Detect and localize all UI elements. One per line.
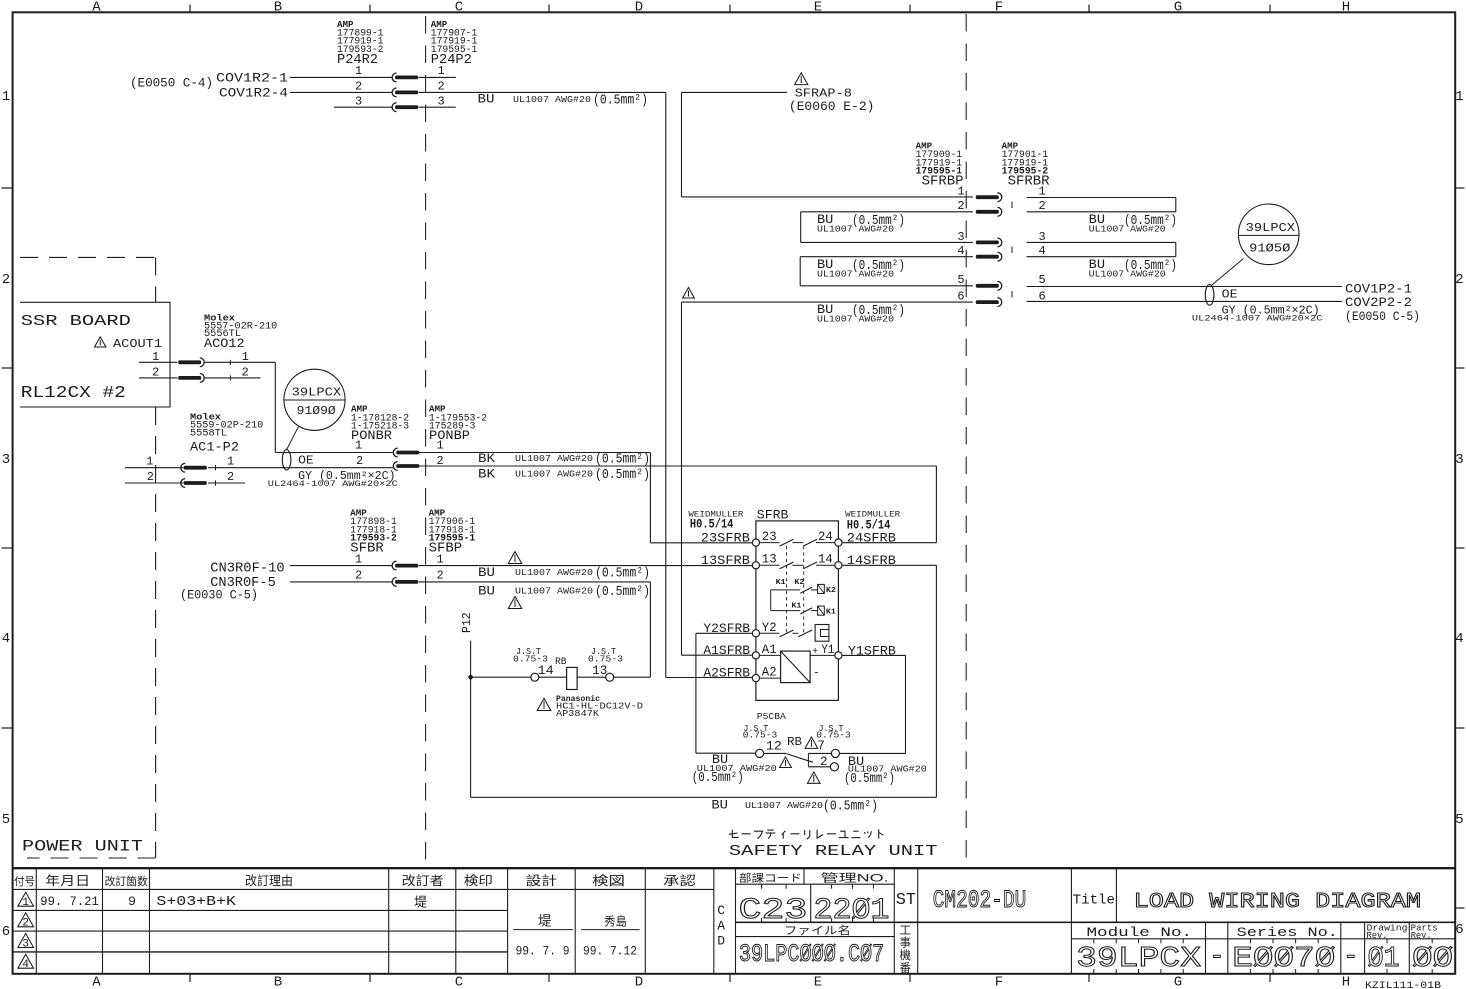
warning triangle SFRAP-8 — [795, 73, 808, 85]
relay mechanical linkage dashed lines — [786, 546, 788, 633]
svg-text:Module No.: Module No. — [1087, 925, 1193, 940]
svg-text:E: E — [814, 975, 822, 989]
connector AC1-P2 pin 1 contact — [181, 463, 185, 472]
svg-text:2: 2 — [957, 199, 964, 213]
row ticks right — [1455, 187, 1464, 189]
relay contact row Y2 (reset) — [760, 632, 780, 634]
svg-text:A2SFRB: A2SFRB — [703, 666, 750, 681]
svg-text:(0.5mm²): (0.5mm²) — [823, 798, 878, 814]
svg-text:1: 1 — [1039, 185, 1046, 199]
terminal circle 7 — [831, 749, 839, 757]
warning triangle ACOUT1 — [94, 337, 105, 347]
svg-text:2: 2 — [1455, 272, 1463, 288]
relay terminal A2 — [752, 675, 759, 682]
svg-text:(E0050 C-5): (E0050 C-5) — [1345, 309, 1420, 324]
svg-text:PONBP: PONBP — [429, 428, 470, 443]
svg-text:23: 23 — [762, 530, 777, 544]
relay supply rectifier square — [760, 654, 781, 656]
connector P24 pin 3 contact — [392, 103, 396, 112]
svg-text:COV2P2-2: COV2P2-2 — [1345, 295, 1412, 310]
warning triangle under blade — [780, 757, 792, 768]
svg-text:1: 1 — [438, 64, 445, 78]
svg-text:D: D — [635, 975, 643, 989]
connector PONB pin 1 contact — [393, 448, 397, 457]
wire SFBR pin1 left — [290, 565, 392, 567]
connector AC1-P2 pin 1 wire left — [125, 467, 184, 469]
jumper SFRBP pin2-pin3 loop — [801, 211, 973, 213]
connector SFRB contacts pins 1-6 — [997, 193, 1001, 202]
svg-text:5: 5 — [1039, 273, 1046, 287]
svg-text:堤: 堤 — [414, 895, 427, 910]
svg-text:RB: RB — [787, 735, 802, 749]
svg-text:Title: Title — [1073, 894, 1115, 909]
relay terminal Y1 — [835, 652, 842, 659]
relay K coil bracket — [770, 590, 772, 611]
wire 14 to RB coil — [539, 676, 567, 678]
svg-text:COV1R2-4: COV1R2-4 — [219, 85, 288, 100]
connector P24 pin 2 contact — [392, 88, 396, 97]
wire P12 stub — [470, 641, 472, 678]
revision mark 4 — [18, 954, 34, 968]
svg-text:5: 5 — [957, 273, 964, 287]
svg-text:UL1007 AWG#20: UL1007 AWG#20 — [515, 453, 593, 464]
SSR BOARD box — [20, 302, 170, 407]
svg-text:秀島: 秀島 — [604, 914, 627, 929]
svg-text:6: 6 — [957, 290, 964, 304]
wire P24 pin1 left — [290, 76, 392, 78]
relay terminal Y2 — [752, 630, 759, 637]
relay K1 coil branch — [771, 610, 801, 612]
svg-text:改訂者: 改訂者 — [402, 873, 444, 888]
svg-text:検図: 検図 — [592, 874, 625, 888]
svg-text:Y1SFRB: Y1SFRB — [848, 643, 896, 658]
svg-text:91Ø5Ø: 91Ø5Ø — [1249, 243, 1290, 256]
wire SFRBP pin6 to A1SFRB — [682, 301, 973, 303]
svg-text:(0.5mm²): (0.5mm²) — [595, 566, 650, 582]
relay contact row 13-14 — [760, 564, 780, 566]
relay latch symbol — [815, 625, 829, 642]
warning triangle above 7 — [805, 737, 818, 748]
svg-text:堤: 堤 — [538, 914, 552, 929]
svg-text:3: 3 — [438, 95, 445, 109]
svg-text:(0.5mm²): (0.5mm²) — [595, 467, 650, 483]
svg-text:付号: 付号 — [14, 875, 35, 888]
wire SFRBR pin6 to COV2P2-2 — [1027, 300, 1342, 302]
svg-text:ファイル名: ファイル名 — [784, 923, 851, 937]
svg-text:工: 工 — [900, 925, 912, 937]
svg-text:承認: 承認 — [663, 873, 697, 888]
unit mating line F (SFRB connectors) — [965, 14, 967, 864]
svg-text:E: E — [814, 0, 822, 16]
svg-text:39LPCX: 39LPCX — [1246, 222, 1295, 235]
revision table verticals — [35, 868, 37, 973]
svg-text:UL1007 AWG#20: UL1007 AWG#20 — [515, 469, 593, 480]
svg-text:ACOUT1: ACOUT1 — [113, 337, 162, 351]
svg-text:BU: BU — [478, 92, 495, 107]
wire 14SFRB to RB circuit riser — [842, 564, 936, 566]
svg-text:A: A — [717, 918, 725, 933]
relay K2 coil branch — [771, 589, 801, 591]
svg-text:39LPCX: 39LPCX — [292, 387, 342, 400]
relay coil RB — [567, 667, 578, 689]
svg-text:13: 13 — [762, 553, 777, 567]
svg-text:13: 13 — [592, 664, 607, 678]
svg-text:BK: BK — [478, 451, 495, 466]
wire PONBP pin1 to 23SFRB riser — [419, 452, 651, 454]
wire P24 pin3 stub right — [419, 106, 456, 108]
svg-text:5558TL: 5558TL — [190, 427, 227, 439]
svg-text:改訂理由: 改訂理由 — [245, 873, 293, 888]
wire P24 pin2 left — [290, 91, 392, 93]
wire Y2SFRB to RB12 — [696, 632, 752, 634]
svg-text:(0.5mm²): (0.5mm²) — [844, 771, 895, 787]
relay terminal 23 — [752, 539, 759, 546]
svg-text:BU: BU — [711, 798, 728, 813]
svg-text:2: 2 — [356, 454, 363, 468]
svg-text:3: 3 — [957, 230, 964, 244]
digit separator ticks C232201 — [761, 884, 763, 889]
svg-text:-: - — [1343, 940, 1358, 973]
wire 13 to riser — [614, 676, 651, 678]
connector AC1-P2 mating dashes — [215, 465, 217, 470]
jumper SFRBR pin1-pin2 loop — [1027, 197, 1176, 199]
svg-text:2: 2 — [355, 569, 362, 583]
title block middle horizontal — [736, 921, 1456, 923]
svg-text:1: 1 — [1455, 89, 1463, 105]
wire riser P12 to bottom bus — [470, 677, 472, 797]
svg-text:3: 3 — [2, 452, 10, 468]
relay terminal 13 — [752, 562, 759, 569]
wire PONBR pin1 from oval — [275, 452, 393, 454]
wire A1SFRB from SFRBP pin6 riser — [682, 654, 753, 656]
svg-text:改訂箇数: 改訂箇数 — [104, 874, 148, 888]
wire AC1-P2 pin1 to PONBR pin2 — [208, 467, 393, 469]
svg-text:K1: K1 — [791, 602, 802, 610]
fixed contact bar — [807, 753, 809, 766]
title block top border — [13, 867, 1456, 869]
contact blade from 12 — [764, 752, 787, 754]
svg-text:LOAD WIRING DIAGRAM: LOAD WIRING DIAGRAM — [1134, 890, 1421, 914]
riser x650 SFBP2 to RB contact 13 — [649, 582, 651, 677]
svg-text:F: F — [995, 0, 1003, 16]
svg-text:99. 7. 9: 99. 7. 9 — [516, 943, 570, 958]
svg-text:H0.5/14: H0.5/14 — [690, 518, 734, 532]
wire P24 pin3 left — [334, 106, 392, 108]
cable code circle 39LPCX/91090 — [284, 369, 345, 430]
svg-text:UL1007 AWG#20: UL1007 AWG#20 — [817, 314, 894, 325]
svg-text:1: 1 — [437, 439, 444, 453]
svg-text:4: 4 — [2, 631, 10, 647]
svg-text:6: 6 — [2, 924, 10, 940]
svg-text:AP3847K: AP3847K — [556, 708, 599, 719]
connector SFBR pin 1 contact — [392, 561, 396, 570]
connector SFRB receptacle mating dashes — [1011, 202, 1013, 209]
svg-text:D: D — [635, 0, 643, 16]
jumper SFRBP pin4-pin5 loop — [800, 256, 973, 258]
relay terminal 24 — [835, 539, 842, 546]
svg-text:年月日: 年月日 — [45, 874, 90, 888]
svg-text:2: 2 — [437, 569, 444, 583]
terminal circle 2 — [830, 763, 838, 771]
warning triangle above BU wire — [508, 552, 521, 564]
svg-text:3: 3 — [22, 938, 29, 950]
revision mark 2 — [18, 913, 34, 927]
wire AC1-P2 pin2 stub — [208, 482, 245, 484]
svg-text:K1: K1 — [776, 579, 787, 587]
svg-text:設計: 設計 — [526, 873, 558, 888]
svg-text:ST: ST — [896, 891, 916, 910]
svg-text:部課コード: 部課コード — [739, 872, 802, 885]
digit separator ticks module row — [1093, 939, 1095, 944]
svg-text:K2: K2 — [794, 579, 805, 587]
svg-text:2: 2 — [227, 470, 234, 484]
svg-text:UL1007 AWG#20: UL1007 AWG#20 — [817, 224, 894, 235]
svg-text:5: 5 — [1455, 812, 1463, 828]
svg-text:2: 2 — [355, 80, 362, 94]
svg-text:UL2464-1007 AWG#20×2C: UL2464-1007 AWG#20×2C — [1192, 314, 1323, 324]
wire SFRAP-8 branch horizontal — [682, 91, 788, 93]
wire SFRBR pin5 to COV1P2-1 — [1027, 286, 1342, 288]
bottom bus wire BU — [471, 796, 937, 798]
svg-text:1: 1 — [437, 553, 444, 567]
connector P24 pin 1 contact — [392, 73, 396, 82]
svg-text:機: 機 — [900, 948, 912, 962]
cable code circle 39LPCX/91050 — [1238, 204, 1299, 265]
svg-text:F: F — [995, 975, 1003, 989]
cable oval OE right — [1205, 285, 1214, 306]
wire SFBR pin2 left — [290, 581, 392, 583]
POWER UNIT boundary dashed box — [20, 256, 156, 258]
svg-text:0.75-3: 0.75-3 — [513, 655, 548, 665]
row ticks left — [2, 187, 13, 189]
svg-text:SAFETY RELAY UNIT: SAFETY RELAY UNIT — [729, 843, 938, 860]
leader line to OE oval right — [1212, 259, 1244, 286]
svg-text:Series No.: Series No. — [1237, 925, 1338, 940]
svg-text:D: D — [717, 934, 725, 949]
svg-text:(E0060 E-2): (E0060 E-2) — [789, 100, 875, 114]
svg-text:13SFRB: 13SFRB — [701, 553, 750, 568]
SAFETY RELAY UNIT label (japanese katakana strokes) — [729, 833, 738, 834]
svg-text:4: 4 — [1455, 631, 1463, 647]
svg-text:EØØ7Ø: EØØ7Ø — [1232, 942, 1335, 975]
svg-text:24: 24 — [818, 530, 833, 544]
column ticks top — [189, 5, 191, 13]
svg-text:-: - — [1209, 940, 1224, 973]
svg-text:B: B — [274, 975, 282, 989]
svg-text:RL12CX #2: RL12CX #2 — [21, 384, 126, 403]
svg-text:Rev.: Rev. — [1367, 931, 1388, 941]
svg-text:H: H — [1342, 975, 1350, 989]
connector ACO12 pin 2 wire (SSR side) — [139, 377, 178, 379]
svg-text:UL1007 AWG#20: UL1007 AWG#20 — [1089, 269, 1166, 280]
revision mark 1 — [18, 892, 34, 906]
svg-text:(0.5mm²): (0.5mm²) — [692, 770, 744, 786]
revision table header underline — [13, 888, 714, 890]
svg-text:AC1-P2: AC1-P2 — [190, 440, 239, 455]
relay SFRB body box — [756, 521, 839, 701]
junction dot P12 — [468, 675, 473, 680]
ST cell — [893, 868, 895, 973]
svg-text:SFRB: SFRB — [757, 507, 789, 522]
svg-text:3: 3 — [1039, 230, 1046, 244]
relay contact row 23-24 — [760, 542, 780, 544]
svg-text:(0.5mm²): (0.5mm²) — [595, 584, 650, 600]
svg-text:B: B — [274, 0, 282, 16]
svg-text:SFRAP-8: SFRAP-8 — [795, 87, 852, 100]
wire ACO12 pin2 stub — [204, 377, 261, 379]
svg-text:14: 14 — [818, 553, 833, 567]
svg-text:1: 1 — [152, 350, 159, 364]
connector AC1-P2 pin 2 wire left — [125, 482, 184, 484]
svg-text:UL2464-1007 AWG#20×2C: UL2464-1007 AWG#20×2C — [268, 479, 398, 489]
svg-text:(0.5mm²): (0.5mm²) — [595, 452, 650, 468]
svg-text:BU: BU — [478, 584, 495, 599]
svg-text:A: A — [92, 975, 101, 989]
svg-text:ACO12: ACO12 — [204, 336, 245, 351]
terminal circle 14 (J.S.T) — [531, 673, 539, 681]
svg-text:OE: OE — [1222, 288, 1238, 301]
svg-text:91Ø9Ø: 91Ø9Ø — [297, 405, 336, 418]
warning triangle Panasonic — [537, 698, 551, 710]
svg-text:COV1R2-1: COV1R2-1 — [216, 70, 288, 85]
svg-text:UL1007 AWG#20: UL1007 AWG#20 — [513, 94, 591, 105]
svg-text:2: 2 — [438, 80, 445, 94]
svg-text:4: 4 — [957, 244, 964, 258]
svg-text:S+03+B+K: S+03+B+K — [156, 895, 237, 910]
wire 23SFRB — [650, 542, 752, 544]
svg-text:2: 2 — [152, 366, 159, 380]
svg-text:4: 4 — [1039, 244, 1046, 258]
wire PONBP pin2 to 24SFRB riser — [419, 465, 937, 467]
revision mark 3 — [18, 934, 34, 948]
control number C232201 — [810, 884, 812, 922]
svg-text:BK: BK — [478, 467, 495, 482]
connector SFBR pin 2 contact — [392, 578, 396, 587]
revision table row lines — [13, 909, 508, 911]
svg-text:+: + — [812, 647, 818, 658]
svg-text:-: - — [813, 667, 820, 679]
svg-text:(0.5mm²): (0.5mm²) — [593, 92, 648, 108]
svg-text:UL1007 AWG#20: UL1007 AWG#20 — [515, 567, 593, 578]
svg-text:4: 4 — [22, 959, 29, 971]
svg-text:2: 2 — [2, 272, 10, 288]
svg-text:KZIL111-01B: KZIL111-01B — [1365, 980, 1441, 989]
cable oval GY (AC1 wires) — [282, 450, 291, 470]
svg-text:2: 2 — [22, 918, 29, 930]
svg-text:BU: BU — [478, 565, 495, 580]
wire SFRAP-8 branch vertical — [681, 92, 683, 196]
wire P24P2 pin2 (BU) to A2SFRB - horizontal run — [419, 91, 666, 93]
svg-text:K1: K1 — [826, 609, 837, 617]
svg-text:POWER UNIT: POWER UNIT — [22, 838, 143, 856]
svg-text:9: 9 — [128, 894, 136, 909]
svg-text:99. 7.12: 99. 7.12 — [583, 943, 637, 958]
wire P24 pin1 stub right — [419, 76, 456, 78]
svg-text:K2: K2 — [826, 587, 837, 595]
svg-text:1: 1 — [355, 64, 362, 78]
wire 24SFRB — [842, 542, 936, 544]
svg-text:6: 6 — [1455, 922, 1463, 938]
svg-text:H: H — [1342, 0, 1350, 16]
terminal circle 13 (J.S.T) — [606, 673, 614, 681]
Title cell — [1070, 868, 1072, 973]
module row header underline — [1071, 938, 1455, 940]
warning triangle below BU label — [508, 597, 521, 609]
svg-text:5: 5 — [2, 812, 10, 828]
wire P24P2 pin2 (BU) vertical drop x666 — [665, 92, 667, 677]
svg-text:99. 7.21: 99. 7.21 — [40, 894, 99, 909]
svg-text:UL1007 AWG#20: UL1007 AWG#20 — [1089, 224, 1166, 235]
svg-text:12: 12 — [766, 740, 782, 754]
svg-text:1: 1 — [355, 553, 362, 567]
svg-text:P5CBA: P5CBA — [757, 712, 787, 722]
svg-text:C: C — [455, 975, 463, 989]
svg-text:1: 1 — [355, 439, 362, 453]
svg-text:0.75-3: 0.75-3 — [588, 655, 623, 665]
svg-text:C: C — [717, 903, 725, 918]
warning triangle at pin6 corner — [683, 288, 695, 299]
svg-text:(E0050 C-4): (E0050 C-4) — [130, 76, 213, 91]
riser x650 to 23SFRB — [649, 453, 651, 543]
wire RB coil to 13 — [577, 676, 606, 678]
svg-text:管理NO.: 管理NO. — [821, 871, 889, 885]
svg-text:C: C — [455, 0, 463, 16]
svg-text:G: G — [1174, 975, 1182, 989]
dept code cell — [736, 883, 895, 885]
module row verticals — [1205, 922, 1207, 973]
svg-text:7: 7 — [817, 739, 825, 753]
connector ACO12 pin 1 wire (SSR side) — [139, 361, 178, 363]
svg-text:39LPCØØØ.CØ7: 39LPCØØØ.CØ7 — [739, 940, 884, 969]
wire SFBP pin2 to RB13 riser — [419, 581, 651, 583]
svg-text:P12: P12 — [461, 612, 474, 633]
svg-text:2: 2 — [147, 470, 154, 484]
svg-text:G: G — [1174, 0, 1182, 16]
svg-text:UL1007 AWG#20: UL1007 AWG#20 — [745, 800, 823, 811]
leader line to GY cable oval — [286, 427, 298, 450]
unit mating line C/D (P24 connectors) — [425, 16, 427, 864]
svg-text:番: 番 — [900, 962, 912, 975]
svg-text:UL1007 AWG#20: UL1007 AWG#20 — [817, 269, 894, 280]
jumper SFRBR pin3-pin4 loop — [1027, 241, 1176, 243]
riser x936 to 24SFRB — [935, 466, 937, 543]
warning triangle below 2 — [807, 772, 820, 783]
svg-text:(E0030 C-5): (E0030 C-5) — [180, 588, 258, 603]
connector AC1-P2 pin 2 contact — [181, 479, 185, 488]
svg-text:1: 1 — [227, 454, 234, 468]
connector ACO12 mating dashes — [229, 360, 231, 365]
svg-text:Rev.: Rev. — [1411, 931, 1432, 941]
svg-text:1: 1 — [146, 454, 153, 468]
svg-text:A: A — [92, 0, 101, 16]
wire RB coil row — [471, 676, 531, 678]
svg-text:検印: 検印 — [464, 874, 493, 888]
connector PONB pin 2 contact — [393, 462, 397, 471]
connector ACO12 pin 1 contact — [200, 358, 204, 367]
column ticks bottom — [189, 974, 191, 982]
svg-text:SFBP: SFBP — [429, 542, 463, 557]
svg-text:RB: RB — [555, 656, 567, 668]
wire SFBP pin1 to 13SFRB — [419, 565, 753, 567]
svg-text:1: 1 — [22, 897, 29, 909]
wire Y1SFRB loop to RB contact 7 — [842, 654, 906, 656]
svg-text:Ø1: Ø1 — [1368, 942, 1400, 975]
svg-text:14: 14 — [538, 664, 554, 678]
relay terminal A1 — [752, 652, 759, 659]
svg-text:3: 3 — [355, 95, 362, 109]
wire SFRBP pin1 from SFRAP-8 — [682, 196, 973, 198]
svg-text:CM202-DU: CM202-DU — [933, 886, 1027, 915]
